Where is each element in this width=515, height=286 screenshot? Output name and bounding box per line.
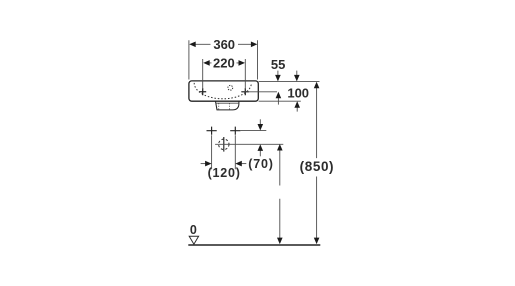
svg-text:360: 360 — [213, 37, 235, 52]
siphon / outlet under basin — [216, 101, 239, 110]
dimension (850) line — [314, 82, 320, 244]
dimension 220 extension lines — [203, 59, 246, 89]
dimension (70) arrows — [258, 119, 264, 156]
washbasin outline (front view) — [189, 81, 258, 101]
dimension 55 label — [271, 57, 285, 72]
dimension (850) label — [300, 159, 335, 174]
dimension 100 label — [287, 86, 309, 101]
svg-text:220: 220 — [213, 55, 235, 70]
dimension 360 extension lines — [189, 40, 258, 79]
svg-text:(850): (850) — [300, 159, 335, 174]
basin bottom level extension line (right) — [259, 100, 301, 102]
dimension (120) extension lines — [212, 135, 236, 169]
svg-text:55: 55 — [271, 57, 285, 72]
fixing hole cross left (in basin) — [199, 88, 206, 95]
svg-text:(70): (70) — [248, 157, 273, 171]
fixing hole level extension line (right) — [241, 91, 277, 93]
svg-text:0: 0 — [190, 223, 197, 237]
dimension (120) arrows — [201, 161, 247, 167]
drain symbol (cross with dashed circle) — [215, 137, 283, 152]
dimension 220 label — [213, 55, 235, 70]
dimension 360 label — [213, 37, 235, 52]
fixing level line (right of crosses) — [241, 130, 267, 132]
svg-text:(120): (120) — [208, 166, 241, 180]
bowl hidden edge (dashed half-ellipse) — [194, 83, 251, 99]
tap hole (dashed circle) — [228, 85, 233, 90]
dimension 220 line — [203, 60, 245, 66]
wall fixing cross right — [230, 127, 240, 135]
floor line — [188, 244, 320, 246]
svg-text:100: 100 — [287, 86, 309, 101]
dimension 100 arrows — [294, 71, 300, 112]
floor datum zero label — [190, 223, 197, 237]
dimension (70) label — [248, 157, 273, 171]
floor datum triangle — [189, 236, 198, 244]
wall fixing cross left — [207, 127, 217, 135]
dimension 55 arrows — [275, 71, 281, 105]
drain height dimension line — [277, 144, 283, 244]
dimension 360 line — [189, 42, 257, 48]
rim level extension line (right) — [259, 81, 320, 83]
fixing hole cross right (in basin) — [242, 88, 249, 95]
dimension (120) label — [208, 166, 241, 180]
